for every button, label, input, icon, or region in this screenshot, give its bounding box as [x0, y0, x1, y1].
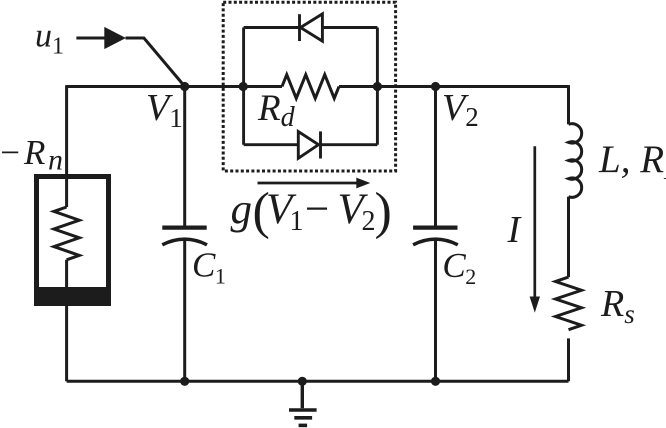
svg-text:V2: V2 — [442, 87, 479, 132]
svg-text:C2: C2 — [442, 246, 476, 289]
svg-text:−Rn: −Rn — [0, 133, 63, 177]
svg-text:Rs: Rs — [600, 283, 635, 329]
svg-text:I: I — [507, 209, 523, 251]
svg-text:Rd: Rd — [257, 88, 296, 133]
svg-text:L, RL: L, RL — [598, 138, 666, 185]
svg-text:C1: C1 — [192, 246, 226, 289]
svg-text:V1: V1 — [146, 87, 183, 133]
svg-text:g(V1−V2): g(V1−V2) — [231, 183, 392, 240]
svg-text:u1: u1 — [35, 18, 64, 60]
